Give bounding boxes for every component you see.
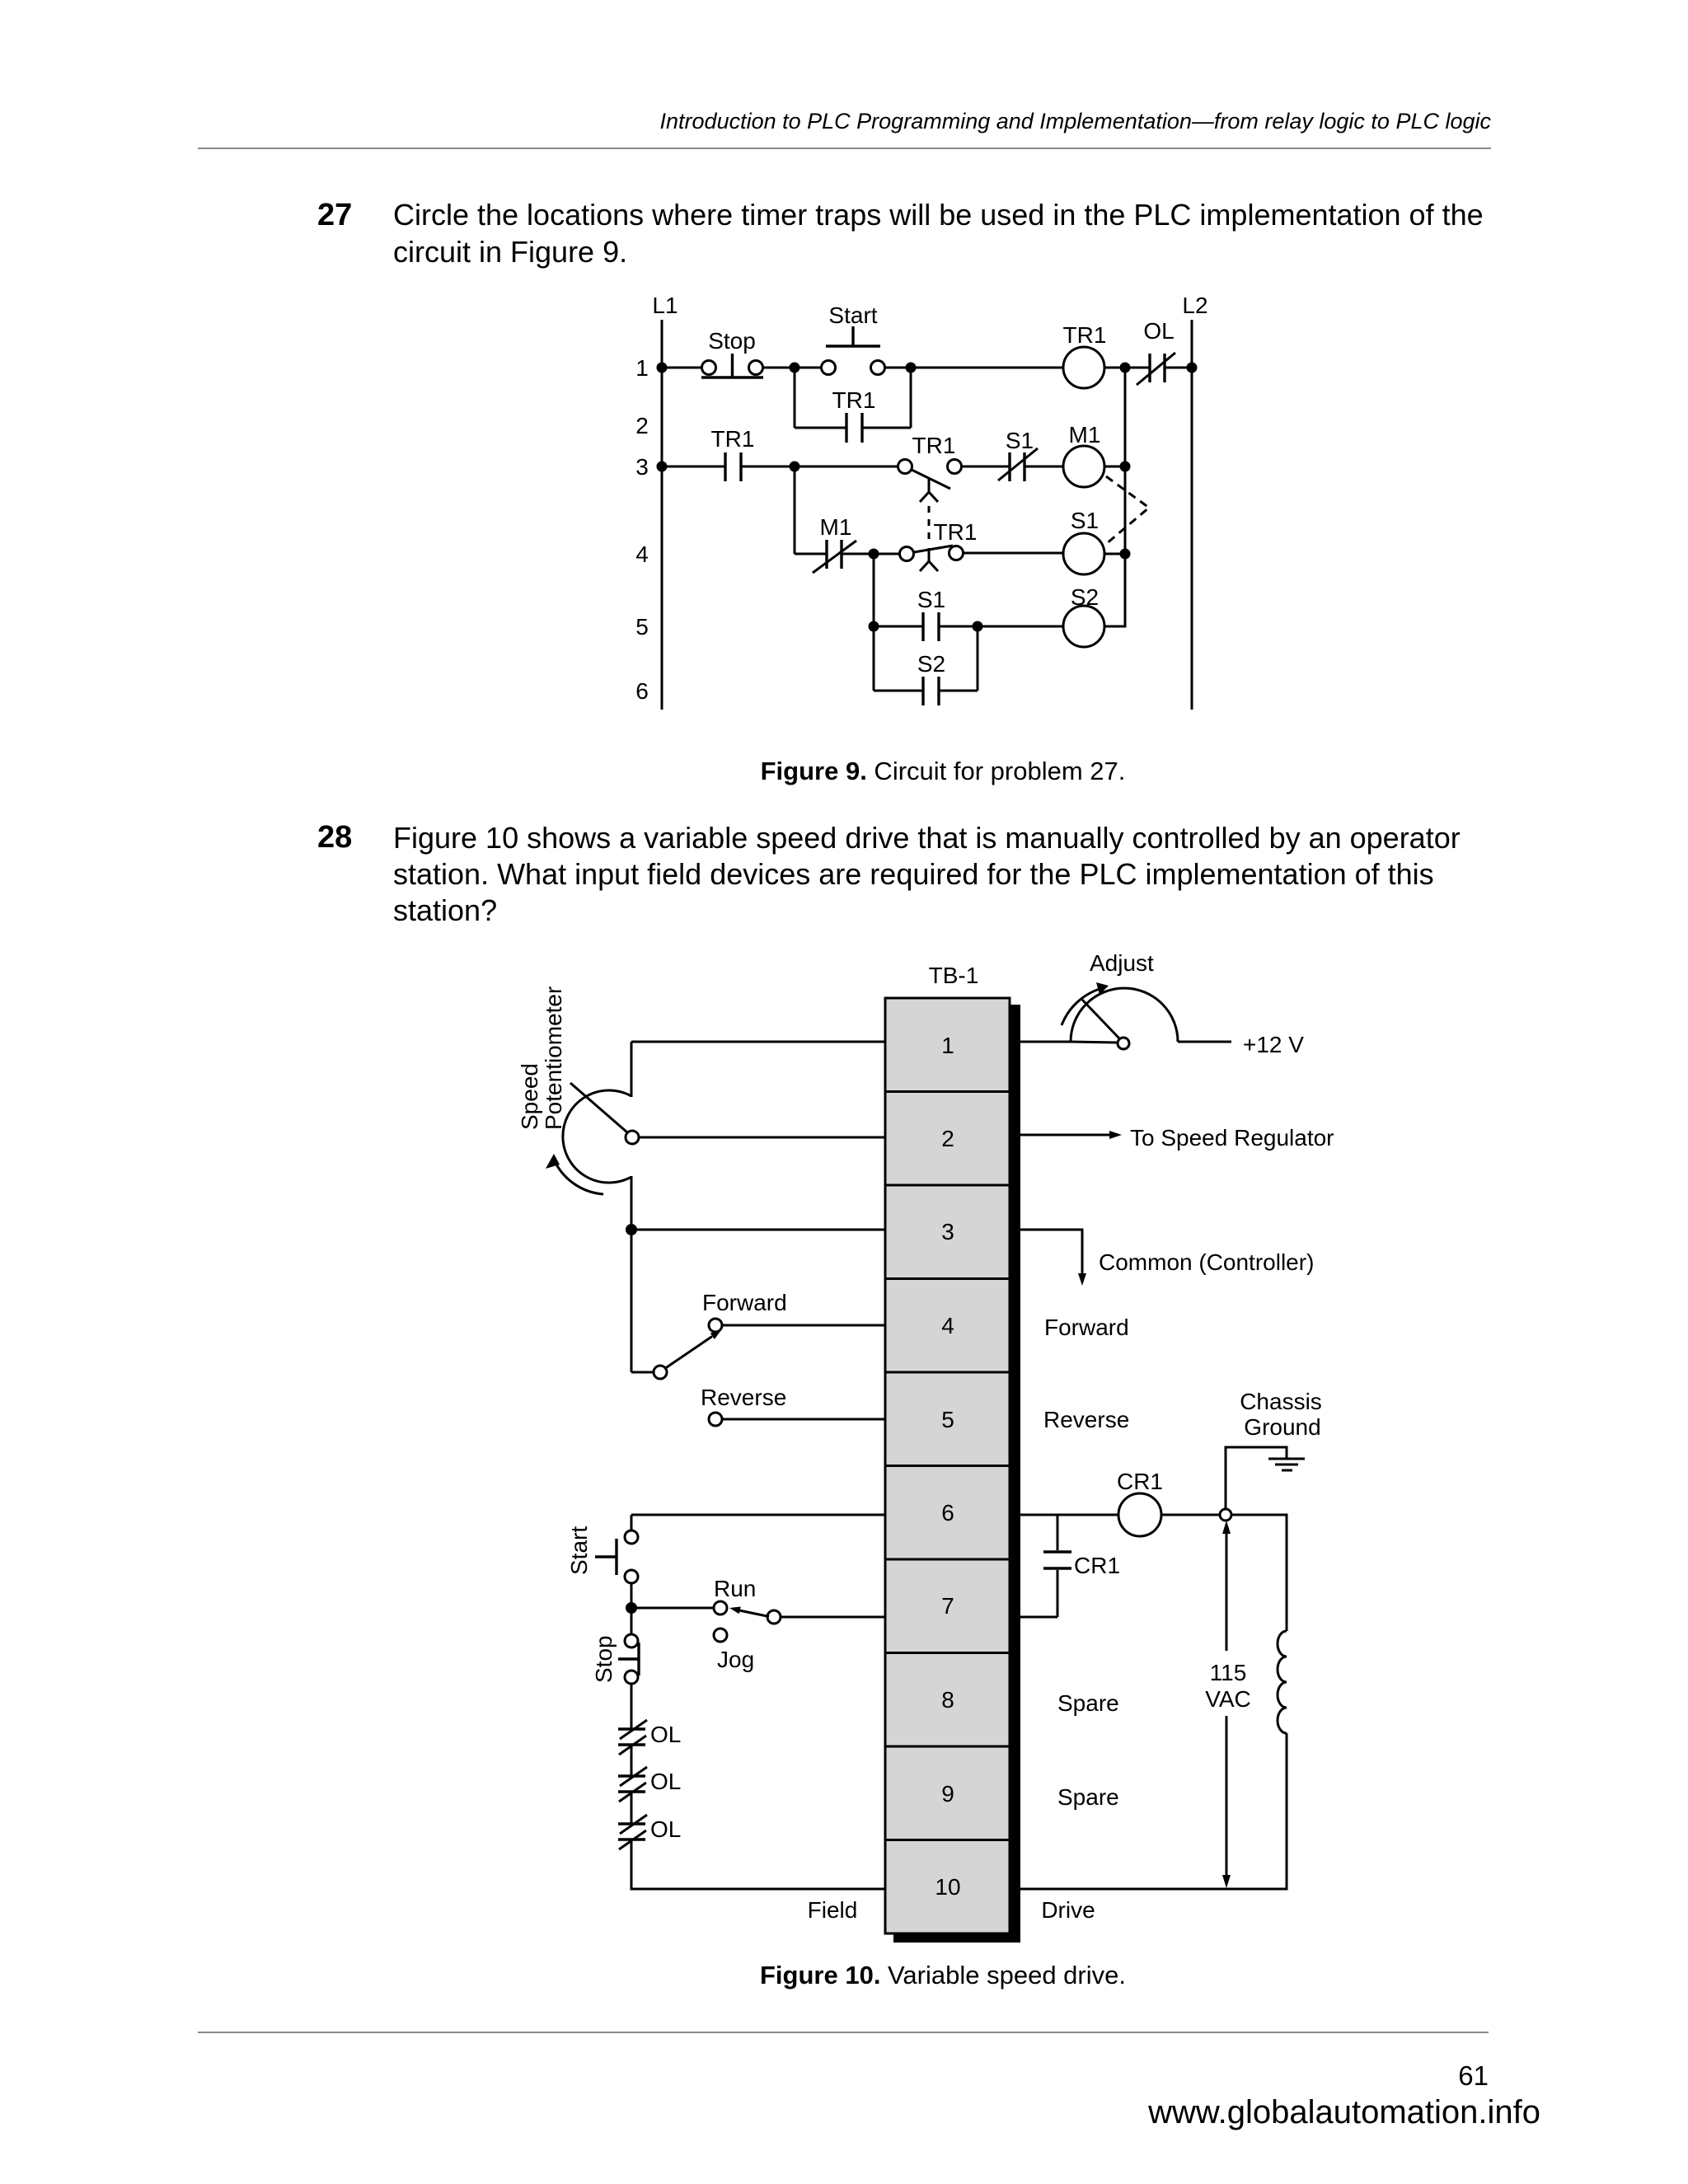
svg-text:L2: L2	[1182, 293, 1207, 318]
overload contact OL1	[618, 1720, 681, 1755]
svg-text:Potentiometer: Potentiometer	[541, 987, 566, 1130]
svg-text:Forward: Forward	[702, 1290, 787, 1315]
overload contact OL3	[618, 1815, 681, 1849]
branch rung6 verticals	[873, 626, 875, 691]
wire CR1 to junction	[1161, 1514, 1220, 1516]
svg-text:5: 5	[635, 614, 649, 640]
wire rung2	[795, 427, 846, 429]
node rung3-A	[790, 462, 800, 472]
svg-text:1: 1	[941, 1033, 954, 1058]
svg-text:10: 10	[935, 1874, 960, 1900]
svg-text:Spare: Spare	[1057, 1690, 1119, 1716]
chassis ground connection	[1226, 1447, 1287, 1509]
svg-text:TR1: TR1	[1063, 322, 1107, 348]
svg-text:CR1: CR1	[1117, 1469, 1163, 1494]
node rung3-B	[1120, 462, 1131, 472]
svg-text:OL: OL	[650, 1769, 681, 1794]
coil S2	[1063, 584, 1104, 647]
svg-text:Reverse: Reverse	[1043, 1407, 1129, 1432]
wire rung6	[874, 690, 923, 692]
wire Stop to OL chain	[631, 1684, 633, 1729]
wire Start to junction	[631, 1583, 633, 1634]
node rung1-B	[906, 363, 917, 373]
coil S1	[1063, 508, 1104, 574]
svg-text:TB-1: TB-1	[929, 963, 979, 988]
svg-text:VAC: VAC	[1205, 1686, 1251, 1712]
wire timed contact to S1	[961, 466, 1010, 468]
svg-text:Forward: Forward	[1044, 1315, 1129, 1340]
svg-text:3: 3	[941, 1219, 954, 1244]
svg-text:S1: S1	[1071, 508, 1099, 533]
wire coil S2 to bus corner	[1104, 626, 1126, 628]
svg-text:Stop: Stop	[591, 1635, 617, 1683]
node rung4-B	[1120, 549, 1131, 560]
pushbutton Stop (NC)	[701, 328, 763, 377]
adjust rotation arrow	[1062, 982, 1109, 1025]
contact S1 (NO) rung5	[917, 587, 945, 641]
overload contact OL2	[618, 1767, 681, 1802]
node rung4-A	[869, 549, 879, 560]
contact Run	[714, 1576, 756, 1615]
wire S1 contact to coil S2	[939, 626, 1063, 628]
svg-text:M1: M1	[820, 514, 852, 540]
coil TR1	[1063, 322, 1107, 388]
contact TR1 (NO) rung3	[711, 426, 755, 481]
node junction (open terminal)	[1220, 1509, 1231, 1521]
svg-text:S1: S1	[1006, 428, 1034, 453]
branch rung2 verticals	[794, 368, 796, 428]
svg-text:2: 2	[941, 1126, 954, 1151]
forward/reverse selector common	[631, 1366, 667, 1379]
wire Forward to terminal4	[722, 1324, 885, 1327]
label Chassis Ground	[1240, 1389, 1322, 1440]
svg-text:TR1: TR1	[934, 519, 978, 545]
wire junction to transformer	[1231, 1515, 1287, 1631]
wire terminal1 left	[631, 1041, 885, 1043]
contact Forward	[702, 1290, 787, 1332]
contact S2 (NO) rung6	[917, 651, 945, 705]
run/jog selector blade	[729, 1607, 781, 1624]
node rung1-C	[1120, 363, 1131, 373]
wire M1 contact to timed contact rung4	[842, 553, 900, 555]
arrow To Speed Regulator	[1020, 1125, 1334, 1151]
vertical rung4 to rung5	[873, 554, 875, 626]
svg-text:Start: Start	[566, 1526, 592, 1575]
node rung1-L1	[657, 363, 668, 373]
svg-text:Reverse: Reverse	[701, 1385, 786, 1410]
svg-text:Drive: Drive	[1041, 1897, 1095, 1923]
terminal separators	[885, 1092, 1010, 1840]
svg-text:9: 9	[941, 1781, 954, 1807]
coil M1	[1063, 422, 1104, 487]
svg-text:2: 2	[635, 413, 649, 438]
figure 9: relay ladder circuit	[0, 288, 1688, 725]
problem 27 text	[393, 196, 1498, 270]
wire pot to terminal3 and down	[631, 1176, 633, 1372]
svg-text:5: 5	[941, 1407, 954, 1432]
right bus	[1124, 368, 1127, 628]
problem 28 number	[317, 820, 352, 855]
label Speed Potentiometer (rotated)	[517, 987, 566, 1130]
caption figure 10	[531, 1961, 1355, 1990]
wire Start to coil TR1	[884, 367, 1063, 369]
svg-text:Speed: Speed	[517, 1063, 542, 1130]
svg-text:Run: Run	[714, 1576, 756, 1601]
svg-text:S2: S2	[1071, 584, 1099, 610]
wire terminal1 right	[1020, 1041, 1071, 1043]
wire left drop to pot	[631, 1042, 633, 1097]
timed contact TR1 (NCTO) rung4	[900, 519, 978, 571]
wire coil TR1 to OL	[1104, 367, 1150, 369]
svg-text:7: 7	[941, 1593, 954, 1619]
rotation arrow	[546, 1154, 603, 1194]
contact Reverse	[701, 1385, 786, 1426]
node start/stop junction	[626, 1602, 637, 1614]
node rung5-B	[973, 621, 983, 632]
header rule	[198, 148, 1491, 149]
svg-text:TR1: TR1	[912, 433, 956, 458]
contact CR1 (NO, vertical)	[1043, 1515, 1120, 1617]
footer rule	[198, 2032, 1489, 2033]
svg-text:To Speed Regulator: To Speed Regulator	[1130, 1125, 1334, 1151]
wire terminal6 left	[631, 1514, 885, 1516]
svg-text:3: 3	[635, 454, 649, 480]
adjust pot wiper	[1071, 1000, 1129, 1049]
contact TR1 (NO, seal-in)	[832, 387, 876, 443]
wire terminal6 right	[1020, 1514, 1118, 1516]
svg-text:Adjust: Adjust	[1090, 950, 1154, 976]
rail L2	[1182, 293, 1207, 710]
svg-text:4: 4	[941, 1313, 954, 1338]
wire Stop to node	[762, 367, 821, 369]
dashed timer link	[928, 506, 931, 544]
wire coil M1 to bus	[1104, 466, 1125, 468]
svg-text:Field: Field	[808, 1897, 858, 1923]
svg-text:Start: Start	[828, 302, 877, 328]
svg-text:Ground: Ground	[1244, 1414, 1320, 1440]
wire terminal7 right	[1020, 1616, 1057, 1619]
wire rung5	[874, 626, 923, 628]
caption figure 9	[531, 757, 1355, 786]
rail L1	[652, 293, 678, 710]
timed contact TR1 (NOTC) rung3	[898, 433, 962, 502]
ground symbol	[1268, 1459, 1305, 1470]
problem 28 text	[393, 820, 1498, 929]
coil CR1	[1117, 1469, 1163, 1536]
speed potentiometer body	[563, 1090, 631, 1183]
wire OL3 to field bottom	[631, 1840, 885, 1889]
node rung1-A	[790, 363, 800, 373]
wire down to Start	[631, 1515, 633, 1530]
wire S1 to coil M1	[1025, 466, 1063, 468]
node rung3-L1	[657, 462, 668, 472]
svg-text:Jog: Jog	[717, 1647, 754, 1672]
pushbutton Stop (NC, vertical)	[618, 1634, 639, 1684]
selector blade toward Forward	[664, 1330, 721, 1369]
wire rung1 L1 to Stop	[662, 367, 702, 369]
contact Jog	[714, 1629, 754, 1672]
svg-text:Stop: Stop	[708, 328, 756, 354]
wire selector to terminal7	[781, 1616, 885, 1619]
terminal block TB-1 body	[885, 998, 1010, 1933]
svg-text:6: 6	[941, 1500, 954, 1526]
running head	[0, 109, 1491, 134]
svg-text:TR1: TR1	[711, 426, 755, 452]
overload contact OL	[1137, 318, 1175, 385]
svg-text:6: 6	[635, 678, 649, 704]
arrow Common (Controller)	[1020, 1230, 1314, 1286]
dimension arrow 115 VAC	[1205, 1521, 1251, 1888]
problem 27 number	[317, 198, 352, 233]
wire coil S1 to bus	[1104, 553, 1125, 555]
svg-text:M1: M1	[1069, 422, 1101, 448]
transformer winding	[1278, 1631, 1287, 1733]
svg-text:L1: L1	[652, 293, 678, 318]
svg-text:Chassis: Chassis	[1240, 1389, 1322, 1414]
svg-text:OL: OL	[1143, 318, 1174, 344]
node terminal3 junction	[626, 1224, 637, 1235]
node rung1-L2	[1187, 363, 1198, 373]
adjust pot body (semicircle)	[1071, 988, 1178, 1042]
svg-text:+12 V: +12 V	[1243, 1032, 1304, 1057]
svg-text:S2: S2	[917, 651, 945, 677]
wire Reverse to terminal5	[722, 1418, 885, 1421]
wire OL2-OL3	[631, 1792, 633, 1824]
wire rung3 L1 to TR1 contact	[662, 466, 725, 468]
figure 10: variable speed drive operator station	[0, 940, 1688, 1949]
pushbutton Start (NO, vertical)	[595, 1530, 638, 1583]
wire terminal3 left	[631, 1229, 885, 1231]
page number	[0, 2060, 1489, 2092]
svg-text:Common (Controller): Common (Controller)	[1099, 1249, 1314, 1275]
terminal block TB-1 shadow	[1010, 1005, 1020, 1943]
svg-text:4: 4	[635, 541, 649, 567]
contact M1 (NC) rung4	[813, 514, 856, 573]
vertical rung3 to rung4	[794, 466, 796, 554]
svg-text:OL: OL	[650, 1722, 681, 1747]
dashed mechanical link M1-S1	[1106, 476, 1149, 544]
wire transformer to drive bottom	[1020, 1733, 1287, 1889]
wire TR1 contact to timed contact	[741, 466, 898, 468]
svg-text:CR1: CR1	[1074, 1553, 1120, 1578]
wire OL to L2	[1165, 367, 1192, 369]
wire junction to Run switch	[631, 1607, 714, 1610]
svg-text:1: 1	[635, 355, 649, 381]
wire to +12V	[1178, 1041, 1231, 1043]
wire rung4 start	[795, 553, 827, 555]
contact S1 (NC) rung3	[998, 428, 1038, 481]
pushbutton Start (NO)	[822, 302, 885, 375]
svg-text:S1: S1	[917, 587, 945, 612]
svg-text:8: 8	[941, 1687, 954, 1713]
potentiometer wiper	[570, 1083, 639, 1144]
svg-text:115: 115	[1210, 1660, 1247, 1685]
site	[0, 2094, 1540, 2131]
wire terminal2 from wiper	[639, 1137, 885, 1139]
svg-text:Spare: Spare	[1057, 1784, 1119, 1810]
wire timed contact to coil S1	[963, 552, 1063, 555]
node rung5-A	[869, 621, 879, 632]
wire OL1-OL2	[631, 1745, 633, 1776]
svg-text:TR1: TR1	[832, 387, 876, 413]
svg-text:OL: OL	[650, 1816, 681, 1842]
